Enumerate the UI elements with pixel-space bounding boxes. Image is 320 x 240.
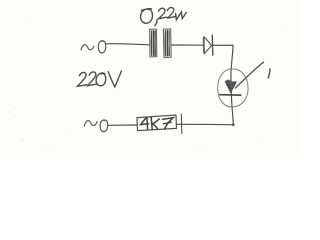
wire capacitor to diode <box>171 44 203 46</box>
stray vertical tick right of resistor <box>180 114 183 134</box>
resistor R1 box <box>137 115 177 131</box>
AC source terminal top (circle) <box>98 41 106 53</box>
diode D1 left edge double stroke <box>202 38 204 53</box>
LED cathode bar <box>220 94 241 96</box>
diode D1 cathode bar <box>211 35 214 55</box>
LED circle <box>218 69 248 107</box>
bottom wire corner to resistor <box>177 123 234 126</box>
AC source terminal top (tilde) <box>81 45 94 50</box>
diode D1 triangle <box>204 37 212 54</box>
AC source terminal bottom (tilde) <box>84 121 97 127</box>
label 0,22u <box>141 8 187 26</box>
capacitor C1 right plate <box>163 29 171 58</box>
label 4k7 <box>141 117 174 129</box>
LED triangle (filled) <box>225 80 236 93</box>
wire diode to top-right corner and down <box>213 45 233 70</box>
junction blob bottom-right corner <box>232 123 235 126</box>
AC source terminal bottom (circle) <box>100 120 108 132</box>
wire terminal to capacitor <box>107 44 149 45</box>
LED diagonal stroke <box>235 62 263 88</box>
capacitor C1 left plate <box>150 29 157 57</box>
wire resistor to bottom terminal <box>109 124 137 126</box>
small tick mark <box>268 69 270 78</box>
label 220V <box>77 71 121 87</box>
paper speckles <box>9 20 285 151</box>
wire through LED down to bottom corner <box>231 70 233 125</box>
